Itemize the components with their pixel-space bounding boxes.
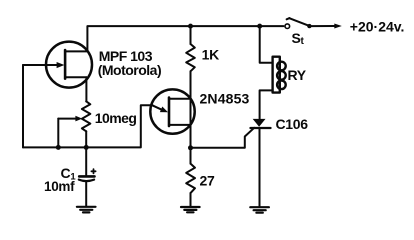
svg-text:1K: 1K xyxy=(202,47,219,63)
svg-text:10meg: 10meg xyxy=(95,110,137,126)
transistor Q2 2N4853 UJT xyxy=(150,89,194,133)
wire top bus xyxy=(87,26,283,51)
svg-text:2N4853: 2N4853 xyxy=(200,90,250,106)
capacitor C1 xyxy=(79,147,96,206)
ground under C1 xyxy=(77,207,96,213)
node junction pot-C1-bus xyxy=(84,145,89,150)
svg-text:27: 27 xyxy=(200,173,215,189)
wire bottom-left bus xyxy=(23,105,153,147)
potentiometer 10meg xyxy=(58,101,90,147)
wire right column x190 xyxy=(190,71,192,163)
node junction top-1K xyxy=(188,24,193,29)
resistor 27 xyxy=(186,164,195,194)
node junction B1-gate-27 xyxy=(188,145,193,150)
wire pot bottom xyxy=(85,131,87,147)
node junction top-relay xyxy=(257,24,262,29)
node junction wiper-bus xyxy=(56,145,61,150)
ground under SCR xyxy=(250,207,269,213)
svg-text:C106: C106 xyxy=(276,116,309,132)
ground under 27 xyxy=(181,207,200,212)
wire SCR gate line xyxy=(191,128,255,148)
wire relay top lead xyxy=(260,26,273,63)
switch St xyxy=(285,18,342,28)
svg-text:RY: RY xyxy=(288,67,307,83)
wire JFET gate left vertical xyxy=(22,65,24,147)
svg-text:(Motorola): (Motorola) xyxy=(98,62,161,78)
svg-text:St: St xyxy=(292,30,305,47)
resistor 1K xyxy=(186,26,195,71)
svg-text:10mf: 10mf xyxy=(44,179,75,194)
wire 27 to ground xyxy=(190,193,192,206)
transistor Q1 MPF 103 JFET xyxy=(23,42,92,88)
relay coil RY xyxy=(273,57,286,93)
wire JFET source down to pot xyxy=(85,77,87,101)
wire relay bottom lead xyxy=(260,90,273,118)
svg-text:+20·24v.: +20·24v. xyxy=(350,19,405,35)
wire SCR cathode down xyxy=(259,128,261,207)
SCR C106 xyxy=(251,119,271,128)
